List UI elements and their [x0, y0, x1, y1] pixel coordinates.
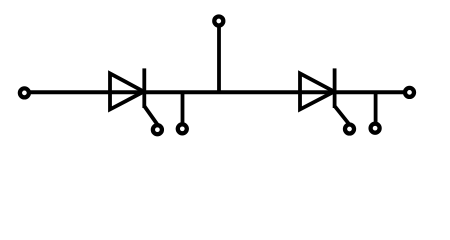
wire auxiliary cathode drop (left) [181, 92, 185, 123]
auxiliary cathode terminal K2 [371, 124, 380, 133]
terminal 2 (center top terminal) [214, 17, 223, 26]
wire main horizontal bus [30, 90, 404, 94]
thyristor V2 gate lead [335, 107, 349, 125]
thyristor V1 triangle (anode->cathode, left) [110, 73, 144, 109]
thyristor V1 gate lead [145, 107, 158, 125]
auxiliary cathode terminal K1 [178, 124, 187, 133]
gate terminal G1 [153, 125, 162, 134]
wire auxiliary cathode drop (right) [374, 92, 378, 123]
terminal 1 (left main terminal) [20, 88, 29, 97]
thyristor V2 cathode bar [333, 68, 337, 108]
thyristor V1 cathode bar [142, 68, 146, 108]
wire center stem to top terminal [217, 25, 221, 94]
gate terminal G2 [345, 125, 354, 134]
terminal 3 (right main terminal) [405, 88, 414, 97]
thyristor V2 triangle (anode->cathode, right) [300, 73, 334, 109]
